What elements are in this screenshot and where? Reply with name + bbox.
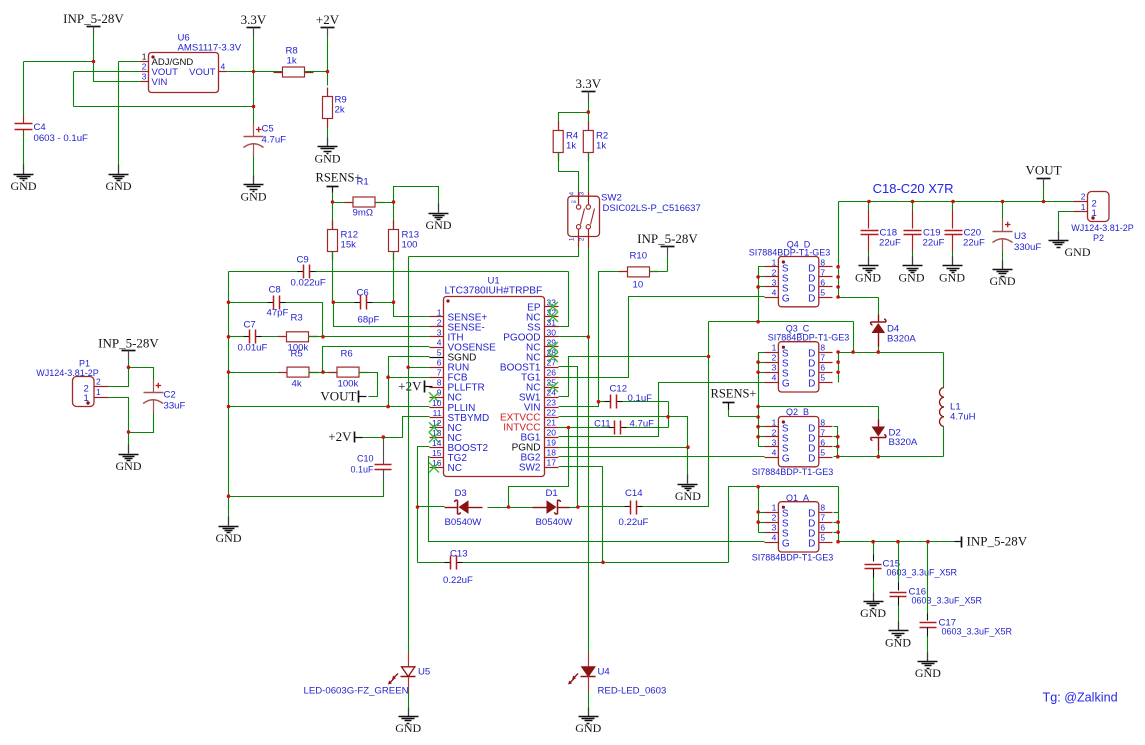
svg-text:G: G <box>782 294 790 305</box>
svg-text:C6: C6 <box>357 288 369 299</box>
svg-text:2: 2 <box>437 317 442 327</box>
wire P1 pin2 to INP <box>109 368 129 387</box>
capacitor C12 0.1uF <box>599 401 605 403</box>
resistor R6 100k <box>323 372 338 374</box>
voltage regulator U6 AMS1117-3.3V <box>149 53 219 93</box>
svg-text:6: 6 <box>820 363 825 373</box>
wire EXTVCC row <box>559 416 669 418</box>
power flag +2V (PLLFTR pin8) <box>424 381 426 393</box>
svg-text:GND: GND <box>885 636 911 650</box>
ground U5 <box>408 708 410 717</box>
ground U3 <box>1002 261 1004 270</box>
junction at 837.6,266.3 <box>836 265 840 269</box>
capacitor C11 4.7uF <box>609 427 615 429</box>
svg-text:18: 18 <box>547 448 557 458</box>
svg-text:VOUT: VOUT <box>1025 163 1061 178</box>
wire PLLIN row from bus <box>229 406 430 408</box>
svg-text:WJ124-3.81-2P: WJ124-3.81-2P <box>1071 223 1134 233</box>
svg-text:22uF: 22uF <box>879 238 901 249</box>
junction at 393,201.5 <box>392 200 396 204</box>
svg-text:+2V: +2V <box>398 379 422 394</box>
svg-text:C9: C9 <box>297 255 309 266</box>
svg-text:GND: GND <box>395 721 421 735</box>
svg-text:GND: GND <box>216 531 242 545</box>
svg-text:GND: GND <box>426 218 452 232</box>
svg-text:0603 - 0.1uF: 0603 - 0.1uF <box>34 133 89 144</box>
power flag +2V (top) <box>321 27 335 29</box>
wire R6 to VOUT flag <box>359 373 378 397</box>
junction at 837.6,351.5 <box>836 350 840 354</box>
svg-text:GND: GND <box>939 271 965 285</box>
svg-text:1k: 1k <box>566 141 576 152</box>
svg-text:1: 1 <box>437 307 442 317</box>
svg-text:VIN: VIN <box>152 77 168 88</box>
svg-text:GND: GND <box>241 190 267 204</box>
svg-text:B0540W: B0540W <box>445 517 483 528</box>
wire GND bus vertical <box>228 272 230 497</box>
svg-text:2: 2 <box>1081 192 1086 202</box>
svg-text:GND: GND <box>915 666 941 680</box>
junction at 837.3,456.2 <box>836 455 840 459</box>
svg-text:3: 3 <box>772 523 777 533</box>
junction at 708,356 <box>707 355 711 359</box>
junction at 757.6,361.57 <box>756 360 760 364</box>
junction at 568,427 <box>567 426 571 430</box>
svg-text:P2: P2 <box>1093 233 1104 243</box>
resistor R3 100k <box>278 336 287 338</box>
svg-text:LTC3780IUH#TRPBF: LTC3780IUH#TRPBF <box>445 286 543 297</box>
power flag INP_5-28V (top-left input) <box>87 26 101 28</box>
ground C16 <box>898 622 900 631</box>
svg-text:5: 5 <box>820 373 825 383</box>
svg-text:7: 7 <box>820 267 825 277</box>
svg-text:11: 11 <box>433 408 442 418</box>
junction at 868.5,201 <box>867 200 871 204</box>
svg-text:C14: C14 <box>625 488 643 499</box>
wire SW2 pin to C13 node <box>559 467 603 563</box>
junction at 757.7,521.57 <box>756 520 760 524</box>
junction at 322.5,336.3 <box>321 335 325 339</box>
svg-text:7: 7 <box>820 513 825 523</box>
wire INP bottom rail <box>839 541 955 543</box>
svg-text:G: G <box>782 454 790 465</box>
svg-text:B320A: B320A <box>889 437 918 448</box>
svg-text:+2V: +2V <box>316 12 340 27</box>
ground C17 <box>927 653 929 662</box>
ground R9 <box>327 138 329 147</box>
junction at 332.8,301.7 <box>332 300 336 304</box>
svg-text:4: 4 <box>437 338 442 348</box>
svg-text:2: 2 <box>579 237 586 241</box>
junction at 837.6,296.51 <box>836 295 840 299</box>
svg-text:B0540W: B0540W <box>536 517 574 528</box>
junction at 927.4,541.2 <box>926 540 930 544</box>
svg-text:C10: C10 <box>357 454 374 464</box>
svg-text:1: 1 <box>142 52 147 62</box>
power flag VOUT (output) <box>1037 178 1051 180</box>
svg-text:1: 1 <box>772 343 777 353</box>
wire VIN up to R10 <box>559 272 628 407</box>
wire Q2 drain chain <box>834 427 838 457</box>
wire Q4 pin5 to D4 <box>839 297 879 299</box>
wire INTVCC row to C11 <box>559 427 569 429</box>
LED U4 red <box>582 667 595 677</box>
junction at 228,371.6 <box>227 370 231 374</box>
svg-text:4: 4 <box>221 62 226 72</box>
svg-text:8: 8 <box>437 378 442 388</box>
svg-text:6: 6 <box>820 277 825 287</box>
ground P2 <box>1058 232 1060 241</box>
svg-text:10: 10 <box>432 398 442 408</box>
svg-text:3: 3 <box>579 192 586 196</box>
junction at 757.6,426.2 <box>756 425 760 429</box>
svg-text:1: 1 <box>772 417 777 427</box>
svg-text:1: 1 <box>772 503 777 513</box>
svg-text:AMS1117-3.3V: AMS1117-3.3V <box>178 43 242 54</box>
capacitor U3 330uF polarized <box>1002 202 1004 219</box>
svg-text:R10: R10 <box>630 251 648 262</box>
svg-text:21: 21 <box>547 418 557 428</box>
wire VOUT to R8 <box>227 71 283 73</box>
resistor R9 2k <box>327 72 329 86</box>
junction at 757.6,406.1 <box>756 405 760 409</box>
wire BOOST2 down <box>418 447 430 563</box>
junction at 852.6,351.6 <box>851 350 855 354</box>
power flag INP_5-28V (bottom right) <box>961 537 963 548</box>
capacitor C18 22uF <box>868 202 870 211</box>
svg-text:C13: C13 <box>450 549 468 560</box>
ground C15 <box>873 593 875 602</box>
svg-text:C11: C11 <box>594 419 610 429</box>
ground C18 <box>868 257 870 266</box>
svg-text:8: 8 <box>820 257 825 267</box>
svg-text:4.7uF: 4.7uF <box>262 135 287 146</box>
junction at 417,506.5 <box>416 505 420 509</box>
junction at 872.6,541.2 <box>871 540 875 544</box>
svg-text:8: 8 <box>820 503 825 513</box>
svg-text:0603_3.3uF_X5R: 0603_3.3uF_X5R <box>912 596 983 606</box>
svg-text:2: 2 <box>96 377 101 387</box>
connector P1 WJ124-3.81-2P <box>73 377 95 407</box>
wire SW1 node horizontal <box>709 321 854 323</box>
inductor L1 4.7uH <box>943 353 945 388</box>
svg-text:R3: R3 <box>291 313 303 324</box>
wire PGOOD to LED vertical <box>559 336 589 338</box>
svg-text:33uF: 33uF <box>164 401 186 412</box>
svg-text:3.3V: 3.3V <box>575 76 601 91</box>
capacitor C8 47pF <box>229 302 268 304</box>
ground C19 <box>912 257 914 266</box>
capacitor C4 <box>23 62 25 120</box>
junction at 1002,201 <box>1001 200 1005 204</box>
junction at 598,401.2 <box>597 400 601 404</box>
svg-text:31: 31 <box>547 317 557 327</box>
wire D3 anode line <box>418 506 445 508</box>
resistor R12 15k <box>332 203 334 230</box>
svg-text:1k: 1k <box>596 141 606 152</box>
svg-text:SI7884BDP-T1-GE3: SI7884BDP-T1-GE3 <box>752 553 834 563</box>
wire INTVCC down to diode node <box>509 428 569 507</box>
svg-text:GND: GND <box>116 459 142 473</box>
junction at 877.8,351.6 <box>877 350 881 354</box>
svg-text:0.22uF: 0.22uF <box>443 575 473 586</box>
junction at 757.6,416.5 <box>756 415 760 419</box>
junction at 877.8,456.2 <box>877 455 881 459</box>
svg-text:6: 6 <box>820 523 825 533</box>
svg-text:WJ124-3.81-2P: WJ124-3.81-2P <box>36 368 99 378</box>
svg-text:0603_3.3uF_X5R: 0603_3.3uF_X5R <box>887 568 958 578</box>
wire BG1 to Q3 gate <box>559 383 765 437</box>
svg-text:C8: C8 <box>269 285 281 296</box>
svg-text:R5: R5 <box>291 349 303 360</box>
svg-text:6: 6 <box>437 358 442 368</box>
svg-text:100: 100 <box>402 240 418 251</box>
svg-text:2k: 2k <box>335 105 345 116</box>
svg-text:GND: GND <box>675 489 701 503</box>
svg-text:+2V: +2V <box>328 429 352 444</box>
wire C12/C11 to EXTVCC <box>668 402 670 428</box>
svg-text:P1: P1 <box>79 359 90 369</box>
svg-text:GND: GND <box>11 179 37 193</box>
diode D3 B0540W <box>459 500 469 514</box>
svg-text:47pF: 47pF <box>267 308 289 319</box>
svg-text:GND: GND <box>855 271 881 285</box>
IC U1 LTC3780IUH#TRPBF <box>444 297 545 477</box>
svg-text:G: G <box>782 539 790 550</box>
svg-text:INP_5-28V: INP_5-28V <box>637 231 698 246</box>
svg-text:C5: C5 <box>262 124 274 135</box>
svg-text:GND: GND <box>106 179 132 193</box>
wire TG2 to Q1 gate rail <box>429 457 765 542</box>
svg-text:5: 5 <box>820 288 825 298</box>
svg-text:RSENS+: RSENS+ <box>316 171 362 185</box>
svg-text:15: 15 <box>432 448 442 458</box>
capacitor C10 0.1uF <box>383 442 385 455</box>
svg-text:7: 7 <box>437 368 442 378</box>
junction at 228,301.7 <box>227 300 231 304</box>
wire Q3 row to L1 <box>839 352 944 354</box>
svg-text:U4: U4 <box>598 667 611 678</box>
resistor R4 1k <box>558 122 560 131</box>
svg-text:B320A: B320A <box>887 334 916 345</box>
svg-text:2: 2 <box>142 62 147 72</box>
svg-text:22uF: 22uF <box>963 238 985 249</box>
capacitor C16 3.3uF <box>898 542 900 583</box>
svg-text:ON: ON <box>571 200 577 204</box>
power flag 3.3V (switch pullup) <box>582 91 596 93</box>
resistor R2 1k <box>588 113 590 123</box>
junction at 332,201.5 <box>331 200 335 204</box>
svg-text:3: 3 <box>142 72 147 82</box>
wire L1 bottom to Q2 drains <box>834 456 944 458</box>
junction at 757.6,286.44 <box>756 285 760 289</box>
wire Q1 source chain <box>758 487 760 533</box>
svg-text:LED-0603G-FZ_GREEN: LED-0603G-FZ_GREEN <box>304 686 409 697</box>
ground C5 <box>253 176 255 185</box>
diode D1 B0540W <box>547 500 557 514</box>
junction at 387.6,376.7 <box>386 375 390 379</box>
ground C4 <box>23 165 25 175</box>
junction at 508,506.5 <box>507 505 511 509</box>
capacitor C15 3.3uF <box>873 542 875 555</box>
svg-text:Tg: @Zalkind: Tg: @Zalkind <box>1043 691 1118 705</box>
junction at 837.6,541.2 <box>836 540 840 544</box>
svg-text:19: 19 <box>547 438 557 448</box>
wire VOSENSE branch <box>323 347 430 373</box>
svg-text:0.022uF: 0.022uF <box>291 278 326 289</box>
svg-text:RED-LED_0603: RED-LED_0603 <box>598 686 667 697</box>
wire SS to C9 line <box>559 272 569 327</box>
wire Q4 source chain <box>759 267 765 322</box>
junction at 687.4,446.7 <box>686 445 690 449</box>
junction at 837.6,286.44 <box>836 285 840 289</box>
svg-text:0.01uF: 0.01uF <box>238 343 268 354</box>
wire Q3 source chain <box>759 353 765 447</box>
svg-text:D: D <box>808 454 815 465</box>
resistor R1 9mOhm <box>333 202 353 204</box>
svg-text:GND: GND <box>575 721 601 735</box>
svg-text:RSENS+: RSENS+ <box>711 387 757 401</box>
capacitor C6 68pF <box>334 302 355 304</box>
wire U6 pin1 ADJ/GND to ground <box>119 61 141 63</box>
svg-text:0.1uF: 0.1uF <box>628 393 653 404</box>
junction at 577.4,506.5 <box>576 505 580 509</box>
junction at 757.6,321.2 <box>756 320 760 324</box>
ground PGND <box>687 475 689 484</box>
svg-text:INP_5-28V: INP_5-28V <box>63 11 124 26</box>
svg-text:3.3V: 3.3V <box>241 12 267 27</box>
junction at 837.3,436.3 <box>836 435 840 439</box>
junction at 757.6,371.64 <box>756 370 760 374</box>
wire SW2 pin2 down <box>588 248 590 337</box>
resistor R8 1k <box>274 72 283 74</box>
junction at 667.5,416.3 <box>666 415 670 419</box>
power flag VOUT (feedback) <box>358 391 360 403</box>
svg-text:1: 1 <box>1081 202 1086 212</box>
junction at 322.5,371.6 <box>321 370 325 374</box>
svg-text:4: 4 <box>772 448 777 458</box>
junction at 228,495.7 <box>227 494 231 498</box>
svg-text:SW2: SW2 <box>519 463 541 474</box>
svg-text:GND: GND <box>899 271 925 285</box>
junction at 912,201 <box>911 200 915 204</box>
svg-text:23: 23 <box>547 398 557 408</box>
junction at 128,366.8 <box>127 366 131 370</box>
ground U6 ADJ <box>118 165 120 175</box>
svg-text:GND: GND <box>1065 245 1091 259</box>
junction at 837.6,531.64 <box>836 530 840 534</box>
junction at 757.6,276.37 <box>756 275 760 279</box>
wire SGND/FCB chain <box>389 357 430 407</box>
junction at 602.5,561.8 <box>601 561 605 565</box>
capacitor C14 0.22uF <box>625 506 631 508</box>
svg-text:0.1uF: 0.1uF <box>350 465 374 475</box>
junction at 93,61 <box>92 60 96 64</box>
resistor R13 100 <box>393 203 395 230</box>
svg-text:C12: C12 <box>610 384 628 395</box>
svg-text:22uF: 22uF <box>923 238 945 249</box>
wire +2V to STBYMD pin11 <box>384 417 430 438</box>
svg-text:2: 2 <box>772 353 777 363</box>
junction at 1043,201 <box>1042 200 1046 204</box>
wire BG2 to Q2 gate <box>559 456 765 458</box>
svg-text:6: 6 <box>820 437 825 447</box>
svg-text:5: 5 <box>820 448 825 458</box>
svg-text:GND: GND <box>315 152 341 166</box>
svg-text:30: 30 <box>547 327 557 337</box>
svg-text:26: 26 <box>547 368 557 378</box>
wire Q3 drain chain <box>838 353 840 383</box>
capacitor C5 4.7uF polarized <box>253 107 255 124</box>
junction at 253,71 <box>252 70 256 74</box>
svg-text:DSIC02LS-P_C516637: DSIC02LS-P_C516637 <box>603 203 701 214</box>
resistor R5 4k <box>229 372 288 374</box>
svg-text:5: 5 <box>820 533 825 543</box>
svg-text:24: 24 <box>547 388 557 398</box>
svg-text:NC: NC <box>448 463 462 474</box>
power flag +2V (STBYMD) <box>354 432 356 443</box>
svg-text:20: 20 <box>547 428 557 438</box>
svg-text:15k: 15k <box>341 240 357 251</box>
capacitor C20 22uF <box>952 202 954 211</box>
junction at 837.6,521.57 <box>836 520 840 524</box>
svg-text:VOUT: VOUT <box>189 67 216 78</box>
svg-text:C2: C2 <box>164 390 176 401</box>
svg-text:D3: D3 <box>455 488 467 499</box>
wire U6 VOUT loop <box>74 71 141 73</box>
wire to R4 <box>559 113 589 123</box>
capacitor C7 0.01uF <box>229 336 244 338</box>
junction at 837.3,446.1 <box>836 445 840 449</box>
capacitor C2 33uF polarized <box>129 368 154 380</box>
junction at 407.7,366.75 <box>406 365 410 369</box>
svg-text:INP_5-28V: INP_5-28V <box>967 534 1028 549</box>
junction at 228,336.3 <box>227 335 231 339</box>
wire INP to U6.VIN and C4 <box>93 35 95 62</box>
wire VOUT top rail <box>839 201 1074 203</box>
svg-text:D1: D1 <box>546 488 558 499</box>
wire RUN vertical from switch <box>408 257 410 653</box>
svg-text:1k: 1k <box>287 56 297 67</box>
svg-text:5: 5 <box>437 348 442 358</box>
junction at 253,106 <box>252 105 256 109</box>
svg-text:7: 7 <box>820 353 825 363</box>
svg-text:1: 1 <box>96 387 101 397</box>
junction at 587.8,336.4 <box>587 335 591 339</box>
junction at 757.6,436.3 <box>756 435 760 439</box>
resistor R10 10 <box>619 271 628 273</box>
wire SW2 node up to Q1 sources <box>729 487 759 563</box>
junction at 393,301.7 <box>392 300 396 304</box>
svg-text:VOUT: VOUT <box>320 389 356 404</box>
wire SENSE+ branch <box>394 303 430 317</box>
svg-text:330uF: 330uF <box>1014 242 1041 253</box>
junction at 757.7,511.5 <box>756 510 760 514</box>
capacitor C9 0.022uF <box>298 271 304 273</box>
svg-text:10: 10 <box>633 280 644 291</box>
svg-text:4k: 4k <box>292 379 302 390</box>
wire TG1 to Q4 gate <box>559 297 765 378</box>
svg-text:C7: C7 <box>244 320 256 331</box>
svg-text:C18-C20 X7R: C18-C20 X7R <box>873 181 954 196</box>
wire P2 pin1 to ground <box>1059 212 1074 232</box>
wire C13 line <box>418 562 445 564</box>
junction at 327,71 <box>326 70 330 74</box>
wire P1 pin1 to ground <box>109 398 129 445</box>
svg-text:R6: R6 <box>341 349 353 360</box>
svg-text:1: 1 <box>569 237 576 241</box>
wire Q1 drain chain <box>838 487 840 543</box>
